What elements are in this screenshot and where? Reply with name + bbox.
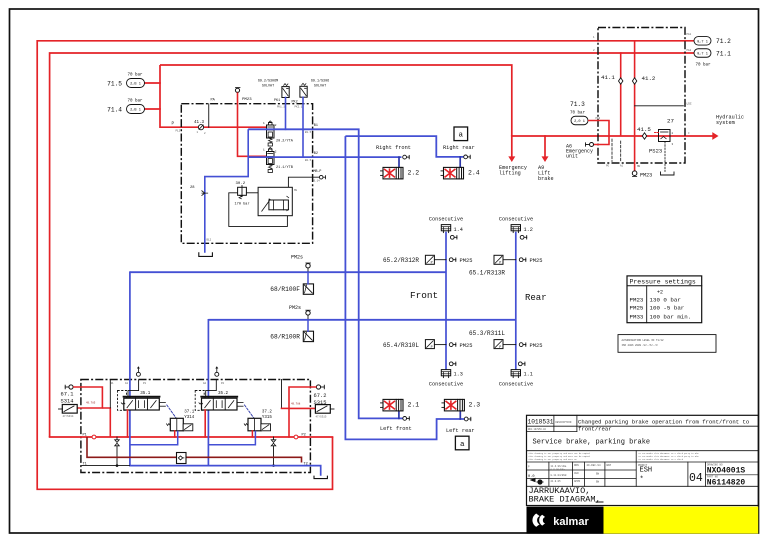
svg-text:B2.5: B2.5	[305, 159, 312, 162]
svg-text:69.2/S306M: 69.2/S306M	[258, 79, 278, 84]
wire relief loop	[229, 193, 288, 227]
junction quick coupling left	[92, 435, 96, 439]
brake cylinder 2.2	[398, 157, 400, 167]
svg-text:1.2: 1.2	[524, 227, 533, 233]
svg-text:PK2.1: PK2.1	[295, 106, 303, 109]
svg-text:47/S315: 47/S315	[316, 415, 327, 419]
svg-text:N6114820: N6114820	[707, 478, 746, 487]
svg-text:B.14: B.14	[314, 180, 321, 183]
port 1.1 stub	[518, 362, 522, 366]
oval gauge 71.2 right	[694, 37, 711, 46]
svg-text:70 bar: 70 bar	[696, 63, 712, 68]
brake cylinder 2.4	[459, 157, 461, 168]
orifice drain left	[116, 437, 118, 440]
port A6 emergency unit	[590, 143, 594, 147]
wire blue B1 line to left front	[248, 129, 402, 418]
port left rear	[464, 417, 468, 421]
svg-text:2.4: 2.4	[468, 169, 480, 176]
svg-text:APPD: APPD	[574, 480, 581, 483]
svg-text:PS23: PS23	[649, 148, 662, 155]
wire red 41.1 branch	[620, 53, 622, 136]
port 67.2 coupling	[316, 385, 320, 389]
svg-text:PM25: PM25	[460, 343, 473, 349]
svg-text:PK1: PK1	[274, 99, 280, 103]
svg-text:P2: P2	[302, 433, 306, 437]
enclosure box top-right (brake valve unit)	[598, 28, 685, 164]
svg-text:B2: B2	[314, 152, 318, 156]
wire red supply loop 71.1	[50, 53, 694, 437]
wire red pilot supply 37.1	[174, 431, 176, 437]
svg-text:Y314: Y314	[184, 416, 195, 420]
svg-text:71.3: 71.3	[570, 101, 585, 108]
solenoid valve 69.1/S306	[300, 86, 307, 97]
svg-text:Consecutive: Consecutive	[499, 381, 533, 387]
svg-text:+2: +2	[657, 289, 663, 295]
svg-text:37.1: 37.1	[184, 410, 195, 414]
wire blue rear park line drop	[207, 320, 209, 466]
svg-text:71.1: 71.1	[716, 50, 731, 57]
svg-text:MB: MB	[637, 165, 641, 168]
brake cylinder 2.1	[398, 411, 400, 419]
wire red PM23 to valve 21.1	[238, 92, 267, 156]
junction quick coupling right	[294, 435, 298, 439]
svg-text:Left rear: Left rear	[446, 428, 475, 434]
svg-text:67.2: 67.2	[314, 393, 327, 399]
oval gauge 71.3	[571, 116, 588, 125]
pilot link to 37.1	[167, 405, 177, 418]
svg-text:PM25: PM25	[530, 258, 543, 264]
cartridge valve 20.2/YTA	[267, 125, 275, 138]
svg-text:AUTHORIZATION LEVEL OF T1/12: AUTHORIZATION LEVEL OF T1/12	[622, 339, 665, 342]
directional valve 35.2	[195, 391, 204, 411]
svg-text:BRAKE DIAGRAM,: BRAKE DIAGRAM,	[529, 494, 601, 504]
svg-text:41.5: 41.5	[637, 126, 651, 133]
wire blue tank line	[130, 466, 321, 476]
svg-text:41.2: 41.2	[642, 75, 656, 82]
svg-text:PM33: PM33	[630, 313, 644, 320]
svg-text:71.5: 71.5	[107, 80, 122, 87]
svg-text:*: *	[640, 476, 644, 484]
svg-text:P: P	[431, 262, 433, 266]
svg-text:100 -5 bar: 100 -5 bar	[650, 305, 685, 312]
svg-text:P2: P2	[221, 382, 225, 385]
svg-text:BW: BW	[596, 481, 600, 484]
wire red branch emergency lifting	[511, 136, 513, 157]
svg-text:PK1.1: PK1.1	[277, 106, 285, 109]
cartridge valve 21.1/YTB	[267, 152, 275, 165]
solenoid 37.2/Y315	[248, 418, 261, 431]
wire blue front axle line	[130, 271, 446, 273]
wire red supply loop 71.2 (outer)	[37, 41, 694, 490]
svg-text:65.1/R313R: 65.1/R313R	[469, 269, 505, 276]
svg-text:2,B 1: 2,B 1	[130, 83, 141, 87]
wire red S315 to manifold	[288, 408, 290, 437]
port 1.3 stub	[449, 362, 453, 366]
svg-text:2.1: 2.1	[408, 402, 420, 409]
svg-text:30.2: 30.2	[236, 182, 246, 186]
svg-text:DESCRIPTION: DESCRIPTION	[556, 421, 572, 424]
svg-text:70 bar: 70 bar	[127, 99, 143, 104]
svg-text:P1: P1	[83, 433, 87, 437]
svg-text:S1: S1	[111, 382, 115, 385]
kalmar logo black box	[527, 507, 604, 534]
svg-text:DRN: DRN	[574, 464, 579, 467]
svg-text:47/S314: 47/S314	[63, 414, 74, 418]
svg-text:PM23: PM23	[630, 296, 644, 303]
title row 1 revision	[527, 425, 759, 427]
svg-text:68/R100R: 68/R100R	[270, 334, 300, 341]
wire blue drain 37.1	[130, 431, 178, 445]
wire blue front park line drop	[129, 272, 131, 465]
enclosure parking brake valve assembly	[81, 380, 311, 473]
svg-text:35.1: 35.1	[140, 392, 151, 396]
directional valve 35.1	[118, 391, 127, 411]
svg-text:B12: B12	[207, 239, 212, 242]
orifice 41.5	[642, 133, 646, 139]
svg-text:35.2: 35.2	[218, 392, 229, 396]
svg-text:a: a	[460, 441, 465, 449]
wire red valve P drop 35.1	[127, 410, 129, 437]
wire red branch A9 lift brake	[544, 136, 546, 157]
svg-text:Consecutive: Consecutive	[429, 381, 463, 387]
svg-text:B1: B1	[314, 124, 318, 128]
wire red to S315	[289, 387, 316, 408]
wire red A6 emergency unit loop	[588, 121, 609, 145]
svg-text:2,B 1: 2,B 1	[130, 109, 141, 113]
wire LSC load sense line	[635, 105, 684, 107]
svg-text:Changed parking brake operatio: Changed parking brake operation from fro…	[578, 419, 749, 426]
svg-text:70 bar: 70 bar	[127, 73, 143, 78]
port right rear	[464, 155, 468, 159]
svg-text:MB-P: MB-P	[314, 169, 322, 173]
svg-text:65.4/R310L: 65.4/R310L	[383, 342, 419, 349]
svg-text:71.2: 71.2	[716, 38, 731, 45]
port 67.1 coupling	[69, 385, 73, 389]
svg-text:29-DEC-94: 29-DEC-94	[587, 464, 601, 467]
svg-text:41.1: 41.1	[601, 74, 615, 81]
orifice 41.2	[632, 78, 636, 84]
svg-text:PG: PG	[606, 165, 610, 168]
wire red park supply manifold	[50, 436, 333, 438]
svg-text:P: P	[499, 346, 501, 350]
svg-text:PA1: PA1	[687, 33, 692, 36]
svg-text:65.2/R312R: 65.2/R312R	[383, 257, 419, 264]
svg-text:A2: A2	[203, 382, 207, 385]
svg-text:68/R100F: 68/R100F	[270, 286, 300, 293]
svg-text:Right rear: Right rear	[443, 145, 475, 151]
svg-text:NXO4001S: NXO4001S	[707, 467, 746, 476]
svg-text:front/rear: front/rear	[578, 426, 612, 433]
svg-text:system: system	[716, 120, 735, 126]
svg-text:21.9.05: 21.9.05	[551, 480, 562, 483]
wire red main pressure line P (71.5/71.4 manifold)	[160, 65, 512, 136]
svg-text:or surrender this document to: or surrender this document to a third	[639, 458, 684, 461]
title row signature cells	[527, 485, 759, 487]
pump unit 30 box	[258, 187, 292, 215]
svg-text:11.3.96/JHa: 11.3.96/JHa	[551, 465, 567, 468]
svg-text:69.1/S306: 69.1/S306	[311, 79, 329, 84]
wire red 41.2 branch	[634, 41, 636, 170]
svg-text:170 bar: 170 bar	[235, 202, 250, 207]
pressure switch PS23	[659, 130, 671, 142]
svg-text:49.785: 49.785	[86, 402, 96, 405]
port right front	[403, 155, 407, 159]
svg-text:S314: S314	[61, 399, 74, 405]
svg-text:PM2s: PM2s	[291, 254, 303, 260]
svg-text:Consecutive: Consecutive	[499, 216, 533, 222]
wire red S314 to manifold	[102, 408, 110, 437]
port top edge stub left	[109, 380, 111, 409]
wire blue front vertical	[445, 233, 447, 370]
arrow hydraulic system	[712, 132, 718, 140]
wire red valve P drop 35.2	[204, 410, 206, 437]
reference box a (top)	[454, 127, 468, 141]
solenoid 37.1/Y314	[170, 418, 183, 431]
svg-text:Consecutive: Consecutive	[429, 216, 463, 222]
svg-text:PM2s: PM2s	[289, 305, 301, 311]
dashed drain wires in box	[611, 139, 613, 162]
svg-text:Right front: Right front	[376, 145, 411, 151]
tank symbol below box	[199, 252, 213, 256]
svg-text:BKP: BKP	[607, 464, 612, 467]
consecutive 1.1	[511, 370, 520, 376]
wire blue B2 line to right front	[248, 156, 401, 158]
breather top left	[136, 372, 140, 376]
svg-text:1.1: 1.1	[524, 371, 533, 377]
svg-text:20.2/YTA: 20.2/YTA	[276, 139, 294, 144]
svg-text:2,0 1: 2,0 1	[574, 120, 585, 124]
svg-text:LSC: LSC	[687, 103, 692, 106]
title disclaimer row	[527, 461, 759, 463]
svg-text:1018531: 1018531	[528, 418, 554, 425]
solenoid valve 69.2/S306	[282, 87, 289, 98]
svg-text:ESH: ESH	[640, 466, 653, 474]
svg-text:P12: P12	[176, 130, 181, 133]
port left front	[403, 417, 407, 421]
tank symbol bottom	[314, 476, 327, 479]
svg-text:28: 28	[190, 186, 195, 190]
svg-text:27: 27	[667, 118, 674, 125]
svg-text:PM23: PM23	[640, 173, 652, 179]
svg-text:Service brake, parking brake: Service brake, parking brake	[533, 439, 651, 447]
title block frame	[527, 415, 759, 505]
wire red to S314	[73, 387, 102, 408]
svg-text:8.9.98/VSa: 8.9.98/VSa	[551, 469, 566, 472]
wire red pilot supply 37.2	[251, 431, 253, 437]
orifice drain right	[273, 437, 275, 440]
svg-text:PM25: PM25	[460, 258, 473, 264]
wire blue drain 37.2	[208, 431, 255, 445]
svg-text:130 0 bar: 130 0 bar	[650, 296, 681, 303]
svg-text:70 bar: 70 bar	[570, 111, 586, 116]
svg-text:REV.197856.02: REV.197856.02	[528, 428, 547, 431]
svg-text:BW: BW	[596, 473, 600, 476]
svg-text:P: P	[499, 262, 501, 266]
svg-text:2.3: 2.3	[469, 402, 481, 409]
svg-text:lifting: lifting	[499, 171, 521, 177]
svg-text:PA2: PA2	[687, 49, 692, 52]
breather link 35.1	[128, 380, 139, 399]
yellow banner	[604, 507, 759, 534]
svg-text:67.1: 67.1	[61, 391, 74, 397]
svg-text:P: P	[431, 346, 433, 350]
svg-text:A1: A1	[620, 165, 624, 168]
wire blue rear riser to left rear	[345, 136, 464, 439]
test point PM23 top	[235, 88, 239, 92]
wire red main line to hydraulic system	[512, 135, 713, 137]
dotted wire PS23 to bracket	[664, 142, 666, 172]
enclosure box foot brake valve unit	[181, 104, 312, 244]
title row service brake	[527, 450, 759, 452]
svg-text:unit: unit	[566, 154, 578, 160]
wire blue rear vertical	[515, 233, 517, 370]
svg-text:71.4: 71.4	[107, 106, 122, 113]
svg-text:100 bar min.: 100 bar min.	[650, 313, 692, 320]
svg-text:SOLVAT: SOLVAT	[262, 85, 274, 89]
svg-text:0.0: 0.0	[528, 475, 534, 479]
svg-text:2.2: 2.2	[408, 169, 420, 176]
svg-text:Left front: Left front	[380, 426, 412, 432]
svg-text:21.1/YTB: 21.1/YTB	[276, 165, 293, 170]
svg-text:CHD: CHD	[574, 472, 579, 475]
projection symbol	[530, 478, 536, 482]
svg-text:PK2: PK2	[292, 101, 298, 105]
consecutive 1.3	[441, 370, 450, 376]
reference box a (bottom)	[455, 436, 469, 450]
svg-text:this drawing is our property a: this drawing is our property and must no	[529, 458, 578, 461]
oval gauge 71.5	[145, 82, 160, 84]
svg-text:PM25: PM25	[630, 305, 644, 312]
svg-text:1.4: 1.4	[454, 227, 463, 233]
table pressure settings	[627, 276, 702, 323]
stamp box authorization	[618, 335, 716, 353]
svg-text:B1.5: B1.5	[305, 131, 312, 134]
svg-text:PA3: PA3	[596, 117, 601, 120]
svg-text:SOLVAT: SOLVAT	[314, 85, 326, 89]
svg-text:8.11.04/ESH: 8.11.04/ESH	[551, 474, 567, 477]
svg-text:1.3: 1.3	[454, 371, 463, 377]
svg-text:65.3/R311L: 65.3/R311L	[469, 330, 505, 337]
wire MP port	[288, 177, 319, 187]
svg-text:Y315: Y315	[262, 416, 273, 420]
svg-text:brake: brake	[538, 176, 554, 182]
svg-text:04: 04	[689, 472, 703, 485]
wire blue drain of cartridges	[205, 129, 248, 253]
orifice 41.3 with check	[198, 125, 203, 130]
breather top right	[215, 372, 219, 376]
shuttle valve	[177, 453, 187, 464]
wire maroon T return	[87, 437, 302, 463]
svg-text:37.2: 37.2	[262, 410, 273, 414]
svg-text:Front: Front	[410, 290, 438, 301]
svg-text:Pressure settings: Pressure settings	[630, 279, 696, 286]
wire tank line black	[82, 465, 130, 467]
wire blue rear axle line	[208, 319, 515, 321]
wire blue solenoid 69.2 drop	[285, 98, 287, 130]
brake cylinder 2.3	[459, 411, 461, 419]
svg-text:ISO 4406 2009 /8/-/6/-/3: ISO 4406 2009 /8/-/6/-/3	[622, 344, 659, 347]
svg-text:a: a	[459, 132, 464, 140]
svg-text:0,7 1: 0,7 1	[697, 53, 708, 57]
svg-text:49.788: 49.788	[291, 403, 301, 406]
svg-text:P1: P1	[143, 382, 147, 385]
svg-text:0,7 1: 0,7 1	[697, 40, 708, 44]
port PA drop	[208, 104, 210, 128]
svg-text:M8: M8	[294, 189, 298, 192]
svg-text:PM25: PM25	[530, 343, 543, 349]
breather link 35.2	[206, 380, 217, 399]
test point PM23 bottom	[632, 171, 637, 176]
pilot link to 37.2	[245, 405, 255, 418]
svg-text:Rear: Rear	[525, 293, 547, 303]
svg-text:A1: A1	[125, 382, 129, 385]
oval gauge 71.4	[145, 108, 160, 110]
svg-text:PRODCT: PRODCT	[638, 464, 648, 467]
svg-text:kalmar: kalmar	[553, 516, 589, 528]
wire blue solenoid 69.1 drop	[302, 97, 304, 157]
orifice 41.1	[619, 78, 623, 84]
wire red riser x160	[160, 65, 267, 127]
svg-text:PM23: PM23	[242, 98, 252, 102]
svg-text:41.3: 41.3	[194, 121, 205, 125]
oval gauge 71.1 right	[694, 49, 711, 58]
wire blue rear crossover	[345, 136, 463, 157]
